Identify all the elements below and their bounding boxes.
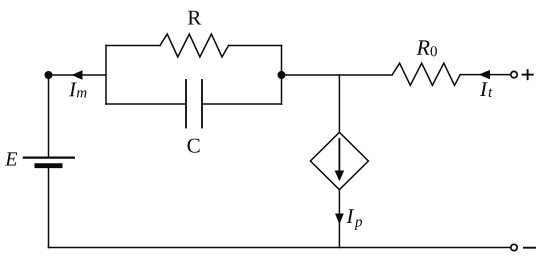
current source arrow <box>338 139 340 171</box>
label Im <box>69 83 87 98</box>
wire RC box left edge <box>105 46 107 105</box>
wire bottom rail <box>49 247 511 249</box>
current source Ip diamond <box>310 132 368 189</box>
wire RC box right edge <box>281 46 283 105</box>
label It <box>480 82 493 97</box>
capacitor C <box>186 80 202 128</box>
wire node B to R0 <box>282 74 393 76</box>
battery E long plate <box>24 157 74 159</box>
node A <box>45 71 53 79</box>
label R0 <box>416 40 437 56</box>
wire node to current source <box>338 75 340 132</box>
label R <box>188 11 201 25</box>
wire R0 to plus terminal <box>460 74 510 76</box>
terminal plus circle <box>511 71 517 77</box>
terminal minus circle <box>511 244 517 250</box>
wire box bottom-left segment <box>106 103 186 105</box>
wire box top-left segment <box>106 45 160 47</box>
arrow It <box>479 70 490 79</box>
resistor R0 <box>392 63 460 85</box>
wire box top-right segment <box>229 45 282 47</box>
plus sign <box>523 70 533 79</box>
wire left node to RC box <box>49 74 107 76</box>
arrow Ip <box>335 214 344 225</box>
battery E short plate <box>37 163 60 168</box>
minus sign <box>524 247 535 249</box>
wire battery bottom <box>48 168 50 248</box>
label E <box>5 152 17 165</box>
wire current source to bottom <box>338 190 340 248</box>
label C <box>188 139 200 153</box>
resistor R <box>160 34 229 57</box>
arrow Im <box>72 70 83 80</box>
wire battery top <box>48 75 50 158</box>
node B <box>278 71 286 79</box>
wire box bottom-right segment <box>202 103 282 105</box>
label Ip <box>346 209 362 229</box>
